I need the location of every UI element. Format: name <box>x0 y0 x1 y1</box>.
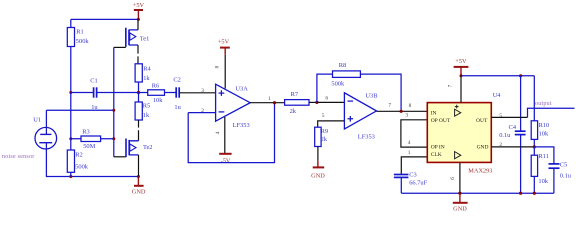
transistor Te1 <box>126 19 150 63</box>
node R10/R11/C5 junction <box>533 145 536 148</box>
svg-text:U3A: U3A <box>235 85 248 92</box>
wire U3A pin2 <box>188 112 215 114</box>
power +5V symbol (U4) <box>454 58 469 77</box>
node Te2 source junction <box>137 175 140 178</box>
svg-text:4: 4 <box>215 131 221 134</box>
svg-text:Te2: Te2 <box>143 144 153 151</box>
svg-text:1k: 1k <box>143 112 150 119</box>
node R7/R8 junction <box>315 101 318 104</box>
svg-text:MAX293: MAX293 <box>468 167 492 174</box>
svg-text:C3: C3 <box>409 171 416 178</box>
ground (middle, R9) <box>311 161 325 180</box>
wire output <box>528 108 575 117</box>
svg-text:-5V: -5V <box>221 158 231 165</box>
svg-text:2k: 2k <box>290 108 297 115</box>
wire U3A output <box>250 102 284 104</box>
capacitor C1 <box>71 78 99 112</box>
node top rail junction <box>137 18 140 21</box>
svg-text:GND: GND <box>477 144 489 150</box>
svg-text:3: 3 <box>201 88 204 94</box>
resistor R2 <box>67 93 88 177</box>
svg-text:500k: 500k <box>76 38 90 45</box>
svg-text:Te1: Te1 <box>140 36 150 43</box>
resistor R3 <box>71 128 114 150</box>
wire C1 to bias node <box>97 92 139 94</box>
wire top rail <box>71 18 139 20</box>
svg-text:IN: IN <box>431 111 437 117</box>
capacitor C3 <box>394 171 428 193</box>
capacitor C2 <box>173 76 181 110</box>
svg-text:GND: GND <box>132 188 146 195</box>
svg-text:R7: R7 <box>291 91 299 98</box>
node R11 bottom junction <box>533 192 536 195</box>
svg-text:U3B: U3B <box>365 92 377 99</box>
op-amp U3A <box>216 84 251 129</box>
svg-text:OP OUT: OP OUT <box>431 118 451 124</box>
svg-text:OP IN: OP IN <box>431 144 445 150</box>
wire U3B pin6 <box>317 101 345 103</box>
wire U3A pin 8 <box>224 55 226 89</box>
capacitor C4 <box>499 76 525 193</box>
svg-text:C4: C4 <box>509 124 517 131</box>
svg-text:R1: R1 <box>76 29 83 36</box>
svg-text:R6: R6 <box>152 83 159 90</box>
node mic junction <box>112 109 115 112</box>
svg-text:1: 1 <box>408 150 411 156</box>
svg-text:50M: 50M <box>83 143 95 150</box>
svg-text:3: 3 <box>405 112 408 118</box>
svg-text:R10: R10 <box>539 122 550 129</box>
node U3A output junction <box>273 101 276 104</box>
node R2 bottom junction <box>69 175 72 178</box>
svg-text:LF353: LF353 <box>358 133 375 140</box>
svg-text:5: 5 <box>499 113 502 119</box>
svg-text:R4: R4 <box>143 65 151 72</box>
wire U4 pin1 CLK to C3 <box>401 157 427 175</box>
node U4 Vminus junction <box>458 192 461 195</box>
svg-text:6: 6 <box>325 96 328 102</box>
svg-text:R8: R8 <box>339 62 346 69</box>
svg-text:10k: 10k <box>153 97 163 104</box>
svg-text:GND: GND <box>311 172 325 179</box>
wire bottom ground rail <box>401 192 554 194</box>
svg-text:0.1u: 0.1u <box>560 173 572 180</box>
svg-text:2k: 2k <box>321 136 328 143</box>
svg-text:R3: R3 <box>82 128 89 135</box>
node output/R8 junction <box>400 110 403 113</box>
op-amp U3B <box>344 92 377 140</box>
svg-text:OUT: OUT <box>476 118 488 124</box>
svg-text:C5: C5 <box>560 161 567 168</box>
svg-text:noise sensor: noise sensor <box>2 154 35 160</box>
node C4 bottom junction <box>519 192 522 195</box>
resistor R6 <box>139 83 177 105</box>
svg-text:CLK: CLK <box>431 152 442 158</box>
power +5V symbol (U3A pin 8) <box>218 39 230 55</box>
wire U4 pin7 <box>460 76 462 103</box>
wire U3A feedback loop <box>188 103 274 163</box>
resistor R5 <box>135 93 150 141</box>
svg-text:+5V: +5V <box>218 39 230 46</box>
node R1/C1 junction <box>69 91 72 94</box>
svg-text:U4: U4 <box>493 92 502 99</box>
svg-text:7: 7 <box>388 103 391 109</box>
svg-text:0.1u: 0.1u <box>499 132 511 139</box>
capacitor C5 <box>534 147 571 193</box>
svg-text:+5V: +5V <box>455 58 467 65</box>
wire U3B pin5 <box>318 121 345 127</box>
node C4 tap junction <box>519 74 522 77</box>
svg-text:GND: GND <box>453 206 467 213</box>
wire U3A pin 4 <box>224 117 226 154</box>
microphone U1 (noise sensor) <box>33 117 56 149</box>
wire U4 bottom pin <box>459 162 461 193</box>
wire mic bottom <box>46 143 138 177</box>
power -5V symbol <box>219 154 231 165</box>
svg-text:U1: U1 <box>33 117 41 124</box>
svg-text:C1: C1 <box>90 78 97 85</box>
ground (left) <box>132 177 146 196</box>
svg-text:1: 1 <box>268 96 271 102</box>
resistor R1 <box>67 19 89 92</box>
wire U3B output to U4 <box>377 110 428 112</box>
svg-text:2: 2 <box>499 142 502 148</box>
svg-text:C2: C2 <box>173 76 180 83</box>
resistor R7 <box>285 91 317 115</box>
svg-text:1k: 1k <box>143 75 150 82</box>
node R3 junction <box>112 137 115 140</box>
svg-text:R5: R5 <box>143 103 150 110</box>
svg-text:5: 5 <box>322 113 325 119</box>
svg-text:500k: 500k <box>331 81 345 88</box>
svg-text:500k: 500k <box>75 163 89 170</box>
resistor R9 <box>315 127 328 160</box>
svg-text:10k: 10k <box>539 130 549 137</box>
svg-text:1u: 1u <box>174 104 181 111</box>
wire C2 to U3A pin3 <box>179 92 215 94</box>
wire gate rail vertical <box>113 47 115 156</box>
svg-text:output: output <box>535 101 552 107</box>
transistor Te2 <box>126 139 153 177</box>
svg-text:R9: R9 <box>321 128 328 135</box>
resistor R4 <box>135 64 151 93</box>
svg-text:R2: R2 <box>75 152 82 159</box>
svg-text:LF353: LF353 <box>233 122 250 129</box>
svg-text:7: 7 <box>448 84 454 87</box>
svg-text:8: 8 <box>214 66 220 69</box>
wire U4 pin2 GND <box>491 146 534 148</box>
node R4/R5/R6 junction <box>137 91 140 94</box>
wire U4 pin3 loop to pin4 <box>401 120 427 147</box>
ground (right, U4) <box>453 193 468 212</box>
resistor R11 <box>531 147 549 193</box>
svg-text:4: 4 <box>408 140 411 146</box>
svg-text:10k: 10k <box>538 178 548 185</box>
wire mic top <box>46 110 113 134</box>
wire +5V drop to R10 <box>533 76 535 121</box>
wire Te2 gate <box>114 156 126 158</box>
resistor R10 <box>531 121 549 147</box>
wire U4 pin5 OUT <box>491 116 527 118</box>
svg-text:R11: R11 <box>538 153 548 160</box>
resistor R8 <box>317 62 401 111</box>
power +5V symbol (top left) <box>133 2 145 19</box>
svg-text:8: 8 <box>409 103 412 109</box>
node R2/R3 junction <box>69 137 72 140</box>
IC U4 MAX293 <box>427 92 501 174</box>
svg-text:66.7uF: 66.7uF <box>409 180 427 187</box>
svg-text:6: 6 <box>450 177 456 180</box>
wire +5V rail right <box>461 75 534 77</box>
svg-text:+5V: +5V <box>133 2 145 9</box>
wire Te1 gate <box>114 46 126 48</box>
